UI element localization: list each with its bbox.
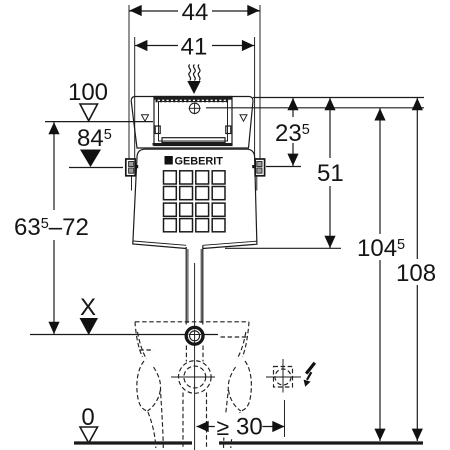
centerline vertical bbox=[194, 263, 196, 450]
drain crosshair bbox=[171, 376, 215, 378]
dimension >=30 bbox=[197, 413, 285, 441]
datum triangle 0 (open) bbox=[80, 427, 98, 443]
svg-text:≥: ≥ bbox=[217, 414, 230, 440]
wall bracket right bbox=[252, 159, 264, 191]
extension line 44 right bbox=[259, 5, 261, 159]
leader line bottom of cistern (51 level) bbox=[225, 247, 341, 249]
lightning bolt bbox=[306, 363, 315, 374]
access shaft bottom edge bbox=[153, 143, 232, 145]
dimension 108 bbox=[395, 98, 439, 442]
level line X bbox=[30, 334, 218, 336]
body bottom inner rim right bbox=[203, 241, 257, 245]
panel sill bbox=[162, 138, 225, 143]
flush pipe bbox=[186, 247, 203, 324]
protection plate grid bbox=[164, 171, 226, 232]
extension line 44 left bbox=[128, 5, 130, 159]
access shaft outer frame bbox=[154, 97, 232, 146]
flush bend elbow bbox=[186, 327, 203, 344]
clip left bbox=[155, 126, 160, 134]
serrated top band bbox=[154, 97, 232, 100]
svg-text:X: X bbox=[80, 294, 96, 321]
body bottom inner rim left bbox=[133, 241, 186, 245]
water level mark left bbox=[142, 115, 149, 121]
dimension 51 bbox=[315, 98, 345, 249]
svg-text:GEBERIT: GEBERIT bbox=[175, 155, 224, 167]
datum triangle X (filled) bbox=[80, 318, 99, 335]
water inlet squiggles bbox=[189, 65, 200, 81]
dimension 41 bbox=[135, 34, 255, 61]
dimension 63.5-72 bbox=[10, 122, 98, 335]
cistern upper box bbox=[131, 97, 253, 149]
clip right bbox=[226, 126, 231, 134]
level line 84.5 bbox=[69, 167, 123, 169]
svg-text:51: 51 bbox=[317, 160, 344, 187]
cistern body bbox=[133, 149, 257, 248]
dimension 23.5 bbox=[272, 98, 316, 167]
leader line bracket (84.5 level) right bbox=[266, 166, 301, 168]
water level mark right bbox=[240, 115, 247, 121]
svg-text:635–72: 635–72 bbox=[14, 214, 89, 241]
drain circle outer (dashed) bbox=[179, 361, 212, 394]
svg-text:44: 44 bbox=[182, 0, 209, 26]
GEBERIT logo bbox=[165, 155, 224, 167]
svg-text:41: 41 bbox=[181, 34, 208, 61]
water inlet arrow bbox=[187, 81, 200, 94]
fill valve crosshair bbox=[189, 102, 201, 114]
access shaft inner frame bbox=[159, 102, 228, 142]
dimension 104.5 bbox=[356, 108, 406, 441]
reference line top of cistern (108 level) bbox=[253, 97, 424, 99]
svg-text:108: 108 bbox=[396, 260, 436, 287]
svg-text:100: 100 bbox=[68, 79, 108, 106]
extension line 41 right bbox=[254, 37, 256, 159]
drain pipe below (dashed) bbox=[182, 393, 184, 450]
floor line bbox=[74, 441, 192, 444]
electrical line to floor bbox=[284, 400, 286, 437]
toilet outline (dashed) bbox=[135, 322, 251, 448]
drain circle inner (dashed) bbox=[184, 366, 206, 388]
datum triangle 100 (open) bbox=[80, 104, 98, 121]
datum triangle 84.5 (filled) bbox=[80, 150, 101, 168]
dimension 44 bbox=[129, 0, 260, 26]
extension line 41 left bbox=[134, 37, 136, 159]
electrical connection symbol bbox=[266, 359, 301, 393]
wall bracket left bbox=[126, 159, 138, 191]
level line 100 bbox=[45, 121, 153, 123]
leader line from fill valve crosshair (104.5 level) bbox=[206, 107, 424, 109]
svg-text:30: 30 bbox=[236, 414, 263, 441]
